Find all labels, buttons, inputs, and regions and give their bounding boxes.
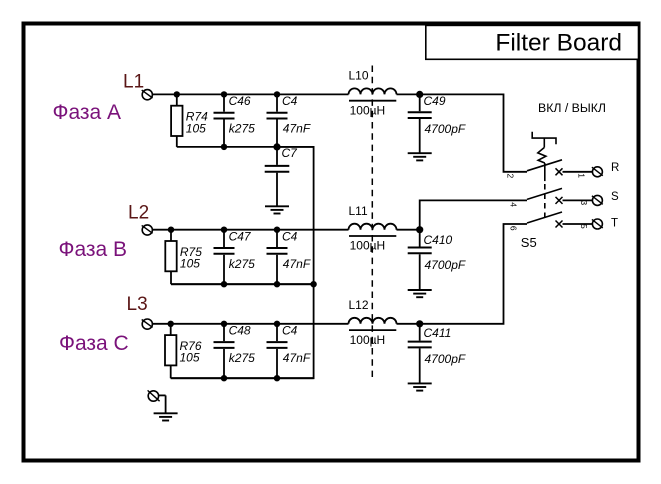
- label C4 value 47nF: [282, 94, 311, 135]
- wire phase A bottom: [177, 146, 314, 148]
- node B C47 top junction: [221, 227, 227, 233]
- ground C49: [408, 153, 432, 160]
- connector terminal T: [592, 219, 603, 229]
- inductor L10: [349, 88, 397, 100]
- svg-text:L11: L11: [349, 204, 368, 218]
- resistor R74: [171, 94, 182, 146]
- svg-text:47nF: 47nF: [283, 257, 311, 271]
- ground C410: [408, 290, 432, 297]
- label R75 value: [180, 245, 202, 271]
- svg-text:C49: C49: [424, 94, 446, 108]
- node A C46 top junction: [221, 91, 227, 97]
- svg-text:L3: L3: [127, 294, 148, 315]
- inductor L12: [349, 318, 397, 330]
- node B bottom junction 2: [274, 281, 280, 287]
- title box: [426, 25, 639, 59]
- capacitor C410: [408, 230, 432, 290]
- node B resistor top junction: [168, 227, 174, 233]
- ground C7: [265, 206, 289, 213]
- svg-text:4700pF: 4700pF: [425, 352, 466, 366]
- switch S5 pole 3 contact cross: [556, 221, 563, 228]
- node B bottom junction 1: [221, 281, 227, 287]
- switch S5 pole 2 contact cross: [556, 197, 563, 204]
- switch S5 pole 1 contact cross: [556, 168, 563, 175]
- svg-text:C46: C46: [229, 94, 251, 108]
- node bus phase B bottom junction: [310, 281, 316, 287]
- svg-text:C7: C7: [282, 146, 299, 160]
- capacitor C48: [214, 324, 235, 378]
- svg-text:R: R: [611, 162, 619, 174]
- wire B coil to C410: [397, 229, 420, 231]
- wire pole 3 to terminal T: [563, 223, 593, 225]
- ground C411: [408, 383, 432, 390]
- svg-text:L1: L1: [123, 71, 144, 92]
- wire phase A main: [153, 93, 349, 95]
- label C47 value: [229, 229, 256, 270]
- svg-text:4700pF: 4700pF: [425, 258, 466, 272]
- resistor R76: [165, 324, 176, 378]
- switch S5 pole 2 lever: [527, 188, 562, 199]
- svg-text:105: 105: [186, 121, 206, 135]
- node C C4 top junction: [274, 321, 280, 327]
- label R76 value: [180, 339, 202, 365]
- wire phase B bottom: [171, 283, 314, 285]
- switch S5 pole 3 lever: [527, 212, 562, 223]
- svg-text:47nF: 47nF: [283, 351, 311, 365]
- inductor L11: [349, 224, 397, 236]
- svg-text:L2: L2: [128, 202, 149, 223]
- svg-text:Filter Board: Filter Board: [495, 30, 622, 57]
- switch S5 pole 1 lever: [527, 160, 562, 171]
- capacitor C4 phase C: [267, 324, 288, 378]
- svg-text:C4: C4: [282, 324, 298, 338]
- node C bottom junction 2: [274, 375, 280, 381]
- dashed alignment line through inductors: [371, 66, 373, 378]
- capacitor C4 phase B: [267, 230, 288, 285]
- svg-text:k275: k275: [229, 257, 255, 271]
- svg-text:k275: k275: [229, 122, 255, 136]
- connector terminal L1: [142, 90, 153, 100]
- wire vertical bus joining phase bottoms: [171, 147, 314, 378]
- svg-text:L12: L12: [349, 298, 369, 312]
- svg-text:4700pF: 4700pF: [425, 122, 466, 136]
- wire phase A to switch pole 1: [420, 94, 527, 171]
- switch S5 gang link dashed: [544, 184, 546, 220]
- wire C coil to C411: [397, 323, 420, 325]
- label C46 value: [229, 94, 256, 135]
- node C410 top junction: [416, 226, 423, 233]
- svg-text:C48: C48: [229, 324, 251, 338]
- svg-text:105: 105: [180, 257, 200, 271]
- connector terminal L3: [142, 319, 153, 329]
- svg-text:C411: C411: [424, 326, 452, 340]
- capacitor C7: [265, 147, 290, 206]
- node C411 top junction: [416, 320, 423, 327]
- connector terminal L2: [142, 225, 153, 235]
- wire phase B to switch pole 2: [420, 200, 527, 229]
- label C4 value 47nF: [282, 229, 311, 270]
- svg-text:Фаза А: Фаза А: [53, 101, 122, 124]
- connector ground terminal: [148, 390, 160, 401]
- node B C4 top junction: [274, 227, 280, 233]
- svg-text:T: T: [611, 218, 618, 230]
- node A resistor top junction: [174, 91, 180, 97]
- label R74 value: [186, 110, 208, 136]
- svg-text:C47: C47: [229, 229, 252, 243]
- switch S5 actuator bracket: [532, 132, 556, 181]
- svg-text:2: 2: [506, 174, 516, 179]
- wire A coil to C49: [397, 93, 420, 95]
- svg-text:100µH: 100µH: [350, 239, 386, 253]
- svg-text:4: 4: [509, 202, 519, 207]
- svg-text:1: 1: [577, 173, 587, 178]
- wire ground terminal: [159, 394, 166, 396]
- label C48 value: [229, 324, 256, 365]
- node C resistor top junction: [168, 321, 174, 327]
- ground symbol bottom-left: [154, 413, 178, 420]
- resistor R75: [165, 230, 176, 285]
- svg-text:k275: k275: [229, 351, 255, 365]
- svg-text:S: S: [611, 191, 619, 203]
- wire phase B main: [153, 229, 349, 231]
- node C49 top junction: [416, 91, 423, 98]
- label C4 value 47nF: [282, 324, 311, 365]
- svg-text:5: 5: [579, 224, 589, 229]
- svg-text:L10: L10: [349, 69, 369, 83]
- node C7 top junction: [273, 143, 280, 150]
- capacitor C46: [214, 94, 235, 146]
- node C C48 top junction: [221, 321, 227, 327]
- node C bottom junction 1: [221, 375, 227, 381]
- wire phase C bottom: [171, 377, 314, 379]
- svg-text:3: 3: [579, 200, 589, 205]
- connector terminal R: [592, 167, 603, 177]
- wire phase C to switch pole 3: [420, 224, 527, 324]
- wire phase C main: [153, 323, 349, 325]
- svg-text:Фаза С: Фаза С: [59, 332, 129, 355]
- svg-text:100µH: 100µH: [350, 103, 386, 117]
- svg-text:C410: C410: [424, 233, 453, 247]
- svg-text:105: 105: [180, 351, 200, 365]
- svg-text:100µH: 100µH: [350, 333, 386, 347]
- node A C4 top junction: [274, 91, 280, 97]
- node A bottom junction 2: [274, 144, 280, 150]
- svg-text:ВКЛ / ВЫКЛ: ВКЛ / ВЫКЛ: [538, 101, 606, 115]
- connector terminal S: [592, 195, 603, 205]
- wire phase B bottom to bus: [171, 283, 314, 285]
- capacitor C411: [408, 324, 432, 384]
- svg-text:C4: C4: [282, 94, 298, 108]
- capacitor C49: [408, 94, 432, 153]
- svg-text:6: 6: [509, 226, 519, 231]
- wire pole 1 to terminal R: [563, 171, 593, 173]
- capacitor C47: [214, 230, 235, 285]
- svg-text:C4: C4: [282, 229, 298, 243]
- svg-text:S5: S5: [521, 235, 537, 250]
- svg-text:47nF: 47nF: [283, 122, 311, 136]
- wire pole 2 to terminal S: [563, 199, 593, 201]
- capacitor C4 phase A: [267, 94, 288, 146]
- node A bottom junction 1: [221, 144, 227, 150]
- svg-text:Фаза В: Фаза В: [59, 238, 128, 261]
